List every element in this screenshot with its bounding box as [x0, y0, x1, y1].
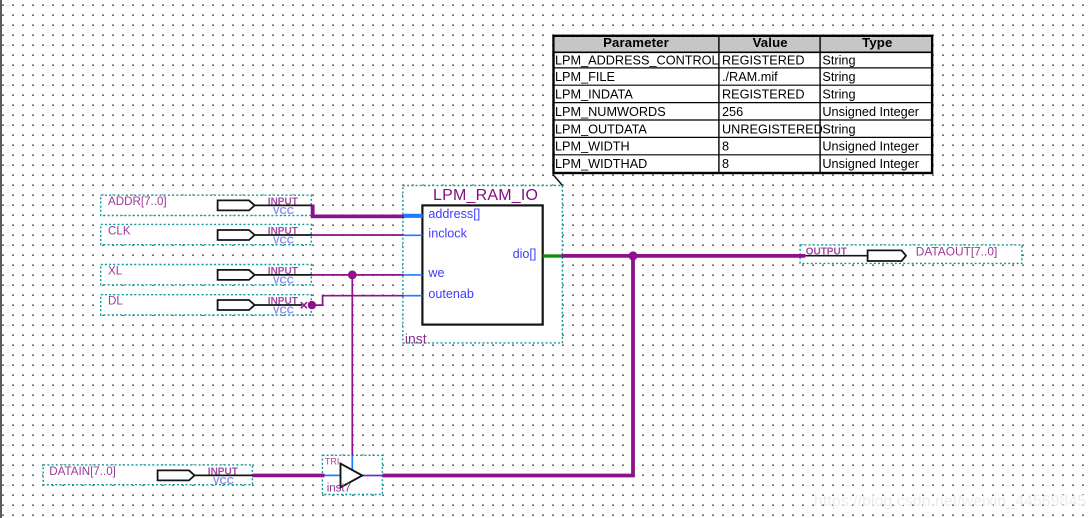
LPM_RAM_IO title	[433, 187, 538, 204]
wire XL vertical to TRI enable	[351, 275, 353, 456]
port label dio[]	[513, 247, 537, 261]
output pin DATAOUT selection box	[800, 245, 1022, 264]
port stub address[] (bus)	[404, 214, 423, 218]
svg-text:DL: DL	[108, 294, 123, 307]
svg-text:LPM_WIDTH: LPM_WIDTH	[555, 140, 630, 154]
input pin CLK selection box	[101, 224, 312, 244]
svg-text:VCC: VCC	[273, 275, 294, 286]
svg-text:256: 256	[722, 105, 743, 119]
svg-text:inst7: inst7	[327, 483, 351, 495]
port label outenab	[428, 287, 474, 301]
svg-text:UNREGISTERED: UNREGISTERED	[722, 122, 823, 136]
port stub dio[] (bus)	[543, 254, 562, 257]
output pin DATAOUT[7..0]	[805, 245, 997, 261]
input pin ADDR selection box	[101, 195, 312, 215]
svg-text:VCC: VCC	[273, 206, 294, 217]
wire DATAIN bus to TRI input	[252, 474, 324, 478]
op symbol LPM_RAM_IO body	[422, 205, 542, 324]
svg-text:LPM_INDATA: LPM_INDATA	[555, 88, 633, 102]
port label address[]	[428, 207, 480, 221]
svg-text:String: String	[822, 88, 855, 102]
svg-text:Unsigned Integer: Unsigned Integer	[822, 105, 919, 119]
svg-text:XL: XL	[108, 264, 123, 277]
svg-text:Unsigned Integer: Unsigned Integer	[822, 157, 919, 171]
svg-text:LPM_FILE: LPM_FILE	[555, 70, 615, 84]
input pin CLK	[108, 224, 312, 246]
svg-text:dio[]: dio[]	[513, 247, 537, 261]
port stub inclock	[404, 234, 423, 236]
svg-text:LPM_ADDRESS_CONTROL: LPM_ADDRESS_CONTROL	[555, 54, 719, 68]
port label inclock	[428, 226, 467, 240]
junction XL node	[348, 271, 357, 280]
wire dio bus to OUTPUT pin	[562, 254, 806, 258]
input pin DL	[108, 294, 302, 316]
instance name inst	[405, 331, 427, 347]
svg-text:Value: Value	[753, 35, 788, 50]
input pin XL	[108, 264, 312, 286]
input pin DL selection box	[101, 295, 312, 315]
junction dio node	[629, 251, 638, 260]
svg-text:LPM_WIDTHAD: LPM_WIDTHAD	[555, 157, 647, 171]
port label we	[427, 266, 444, 280]
svg-text:VCC: VCC	[213, 476, 234, 487]
svg-text:./RAM.mif: ./RAM.mif	[722, 70, 778, 84]
svg-text:REGISTERED: REGISTERED	[722, 88, 804, 102]
input pin ADDR[7..0]	[108, 195, 312, 217]
svg-text:we: we	[427, 266, 444, 280]
svg-text:LPM_RAM_IO: LPM_RAM_IO	[433, 187, 538, 204]
wire XL to we	[311, 274, 404, 276]
tri-state buffer inst7	[325, 456, 383, 495]
wire ADDR bus to address[]	[313, 205, 405, 217]
svg-text:LPM_NUMWORDS: LPM_NUMWORDS	[555, 105, 666, 119]
svg-text:String: String	[822, 70, 855, 84]
LPM_RAM_IO selection box	[403, 186, 563, 343]
parameter table	[553, 35, 932, 173]
input pin DATAIN[7..0]	[49, 465, 252, 487]
svg-text:ADDR[7..0]: ADDR[7..0]	[108, 195, 167, 208]
svg-text:inclock: inclock	[428, 226, 467, 240]
svg-text:8: 8	[722, 140, 729, 154]
X marker DL pin	[301, 302, 307, 308]
svg-text:TRI: TRI	[325, 456, 340, 466]
svg-text:DATAIN[7..0]: DATAIN[7..0]	[49, 465, 116, 478]
input pin DATAIN selection box	[43, 465, 252, 485]
svg-text:CLK: CLK	[108, 224, 131, 237]
svg-text:String: String	[822, 54, 855, 68]
svg-text:Parameter: Parameter	[603, 35, 669, 50]
svg-text:LPM_OUTDATA: LPM_OUTDATA	[555, 122, 647, 136]
svg-text:8: 8	[722, 157, 729, 171]
table leader line	[553, 174, 563, 185]
svg-text:DATAOUT[7..0]: DATAOUT[7..0]	[916, 245, 998, 259]
svg-text:address[]: address[]	[428, 207, 480, 221]
svg-text:Unsigned Integer: Unsigned Integer	[822, 140, 919, 154]
svg-text:REGISTERED: REGISTERED	[722, 54, 804, 68]
watermark text	[814, 493, 1086, 511]
wire CLK to inclock	[311, 234, 404, 236]
wire DL to outenab	[312, 296, 404, 305]
svg-text:outenab: outenab	[428, 287, 474, 301]
svg-text:VCC: VCC	[273, 235, 294, 246]
svg-text:Type: Type	[862, 35, 892, 50]
port stub we	[404, 274, 423, 276]
svg-text:inst: inst	[405, 331, 427, 347]
junction DL node	[308, 301, 316, 309]
svg-text:VCC: VCC	[273, 305, 294, 316]
wire TRI output bus to dio	[383, 256, 634, 476]
input pin XL selection box	[101, 265, 312, 285]
tri-state buffer selection box	[322, 455, 382, 494]
svg-text:String: String	[822, 122, 855, 136]
port stub outenab	[404, 295, 423, 297]
